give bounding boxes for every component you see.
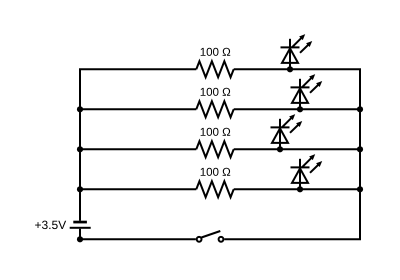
- resistor R1 100 ohm: [196, 61, 233, 77]
- label R2 value 100 Ω: [201, 88, 231, 96]
- LED D3: [271, 114, 303, 152]
- wire top rail right + right bus + bottom right: [224, 69, 360, 239]
- label R1 value 100 Ω: [201, 48, 231, 56]
- switch SW1: [197, 231, 224, 242]
- node right bus / branch 2 junction: [357, 106, 363, 112]
- label R3 value 100 Ω: [201, 128, 231, 136]
- battery V1 +3.5V: [70, 221, 91, 229]
- label R4 value 100 Ω: [201, 168, 231, 176]
- LED D1: [281, 34, 313, 72]
- wire branch 4 left segment: [80, 188, 196, 190]
- resistor R4 100 ohm: [196, 181, 233, 197]
- LED D4: [291, 154, 323, 192]
- node left bus / branch 4 junction: [77, 186, 83, 192]
- node battery negative / bottom rail junction: [77, 236, 83, 242]
- node right bus / branch 3 junction: [357, 146, 363, 152]
- wire top rail left + left bus: [80, 69, 196, 220]
- LED D2: [291, 74, 323, 112]
- resistor R2 100 ohm: [196, 101, 233, 117]
- node left bus / branch 3 junction: [77, 146, 83, 152]
- resistor R3 100 ohm: [196, 141, 233, 157]
- node right bus / branch 4 junction: [357, 186, 363, 192]
- wire branch 4 right segment: [234, 188, 360, 190]
- node left bus / branch 2 junction: [77, 106, 83, 112]
- wire battery negative to bottom rail: [80, 229, 196, 240]
- wire branch 3 left segment: [80, 148, 196, 150]
- wire branch 2 right segment: [234, 108, 360, 110]
- wire branch 2 left segment: [80, 108, 196, 110]
- label battery voltage +3.5V: [35, 221, 66, 230]
- wire branch 3 right segment: [234, 148, 360, 150]
